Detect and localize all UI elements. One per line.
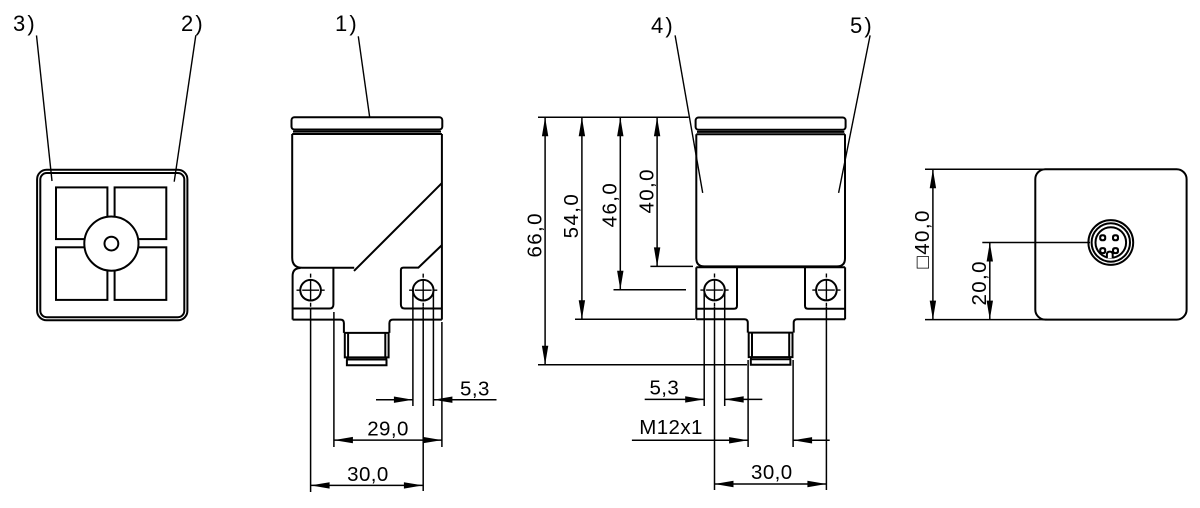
dimension 30,0 view2 arrows	[311, 482, 330, 488]
flange right edge	[844, 267, 846, 319]
left bracket divider	[697, 267, 737, 309]
extension line 66,0	[538, 364, 747, 366]
connector tip	[347, 360, 387, 366]
dimension 40,0 line	[656, 117, 658, 266]
extension line 5,3 right	[432, 293, 434, 406]
right hole centerline vertical	[422, 274, 424, 307]
extension line right hole center	[422, 307, 424, 491]
svg-text:30,0: 30,0	[347, 463, 389, 486]
housing outer contour	[37, 170, 187, 320]
dimension 5,3 v3 arrows	[685, 396, 704, 402]
top extension line v4	[925, 168, 1047, 170]
dimension 54,0 arrows	[579, 117, 585, 136]
extension line M12 right	[792, 360, 794, 447]
svg-text:□40,0: □40,0	[911, 209, 934, 268]
body right edge	[441, 134, 443, 320]
connector nut inner line left	[347, 333, 349, 358]
center extension line v4	[982, 242, 1090, 244]
left hole centerline horizontal	[297, 289, 325, 291]
left hole centerline horizontal	[700, 289, 728, 291]
connector middle circle	[1092, 223, 1130, 261]
base bottom edge right part	[389, 320, 442, 333]
connector pin 1	[1099, 234, 1106, 241]
housing inner contour	[40, 173, 184, 317]
right mounting hole	[816, 280, 837, 301]
right bracket divider	[805, 267, 845, 309]
flange top edge	[696, 266, 845, 268]
right hole centerline horizontal	[812, 289, 840, 291]
dimension M12x1 line	[632, 439, 830, 441]
flange bottom left part	[696, 319, 748, 332]
leader line 2)	[174, 35, 196, 181]
base bottom edge left part	[293, 320, 344, 333]
left hole centerline vertical	[714, 274, 716, 307]
flange left edge with notch	[293, 268, 301, 320]
left mounting hole	[704, 280, 725, 301]
svg-text:54,0: 54,0	[560, 193, 583, 239]
dimension 20,0 arrows	[987, 243, 993, 262]
connector nut body	[749, 333, 793, 358]
dimension square40 line	[932, 169, 934, 319]
dimension 30,0 view2 line	[311, 484, 423, 486]
cap lip line	[697, 131, 844, 133]
dimension 5,3 view2 line	[376, 399, 497, 401]
dimension 66,0 line	[544, 117, 546, 364]
connector nut inner line left	[751, 333, 753, 358]
dimension 29,0 arrows	[334, 437, 353, 443]
leader line 3)	[37, 35, 53, 181]
body top edge	[292, 133, 442, 135]
bottom extension line v4	[925, 319, 1047, 321]
dimension 46,0 line	[619, 117, 621, 289]
svg-text:5): 5)	[850, 13, 874, 38]
extension line left hole center v3	[714, 307, 716, 490]
extension line 40,0	[650, 265, 693, 267]
extension line 46,0	[614, 289, 687, 291]
central hole	[105, 237, 119, 251]
svg-text:46,0: 46,0	[599, 182, 622, 228]
body contour	[696, 134, 845, 266]
extension line 29,0 left	[333, 312, 335, 447]
svg-text:66,0: 66,0	[523, 212, 546, 257]
connector inner circle	[1096, 227, 1127, 258]
svg-text:30,0: 30,0	[751, 461, 793, 484]
flange bottom right part	[794, 319, 845, 332]
connector nut body	[345, 333, 389, 358]
connector pin 4	[1112, 247, 1119, 254]
leader line 4)	[675, 35, 703, 193]
extension line 54,0	[575, 318, 695, 320]
body left edge and bottom edge	[292, 134, 354, 268]
svg-text:2): 2)	[181, 11, 205, 36]
housing rear contour	[1035, 169, 1186, 319]
body top edge	[696, 133, 845, 135]
connector nut top line	[344, 332, 389, 334]
face window top-right	[115, 187, 167, 239]
cap lip line	[293, 131, 441, 133]
flange left edge	[695, 267, 697, 319]
svg-text:20,0: 20,0	[968, 260, 991, 306]
connector nut inner line right	[384, 333, 386, 358]
right hole centerline vertical	[825, 274, 827, 307]
left hole centerline vertical	[310, 274, 312, 307]
svg-text:5,3: 5,3	[649, 376, 679, 399]
svg-text:3): 3)	[13, 11, 37, 36]
connector outer circle	[1088, 220, 1133, 265]
dimension 30,0 v3 line	[715, 483, 827, 485]
right mounting bracket with chamfer	[401, 245, 442, 308]
central circle	[84, 217, 138, 271]
face window bottom-right	[115, 247, 167, 300]
dimension 29,0 line	[334, 439, 442, 441]
dimension 20,0 line	[989, 243, 991, 320]
dimension 5,3 view2 arrows	[394, 397, 413, 403]
face window bottom-left	[56, 247, 107, 300]
left mounting hole	[300, 280, 321, 301]
connector pin 3	[1099, 247, 1106, 254]
extension line 5,3 left v3	[703, 293, 705, 406]
leader line 5)	[839, 35, 871, 193]
dimension 54,0 line	[581, 117, 583, 319]
dimension 46,0 arrows	[617, 117, 623, 136]
top extension line	[538, 116, 689, 118]
extension line 5,3 left	[412, 293, 414, 406]
leader line 1)	[358, 36, 369, 116]
extension line left hole center	[310, 309, 312, 493]
svg-text:M12x1: M12x1	[639, 416, 703, 439]
dimension M12x1 arrows	[729, 437, 748, 443]
left mounting bracket	[293, 268, 334, 309]
svg-text:4): 4)	[651, 13, 675, 38]
dimension 30,0 v3 arrows	[715, 481, 734, 487]
dimension square40 arrows	[930, 169, 936, 188]
face window top-left	[56, 187, 107, 239]
sensing face cap	[292, 117, 443, 129]
right mounting hole	[413, 280, 434, 301]
sensing face cap	[696, 118, 846, 130]
dimension 40,0 arrows	[654, 117, 660, 136]
svg-text:1): 1)	[335, 11, 359, 36]
connector keyway notch	[1107, 252, 1113, 259]
connector nut top line	[748, 332, 793, 334]
connector ring	[347, 357, 386, 359]
svg-text:40,0: 40,0	[635, 168, 658, 214]
connector tip	[751, 359, 791, 365]
right hole centerline horizontal	[409, 289, 437, 291]
extension line 5,3 right v3	[724, 293, 726, 406]
extension line right hole center v3	[825, 307, 827, 490]
svg-text:5,3: 5,3	[460, 377, 490, 400]
extension line M12 left	[747, 360, 749, 447]
connector ring	[751, 357, 790, 359]
connector pin 2	[1112, 234, 1119, 241]
head chamfer diagonal	[354, 183, 442, 271]
connector nut inner line right	[788, 333, 790, 358]
extension line 29,0 right	[441, 322, 443, 447]
dimension 5,3 v3 line	[645, 398, 763, 400]
dimension 66,0 arrows	[542, 117, 548, 136]
svg-text:29,0: 29,0	[367, 418, 409, 441]
